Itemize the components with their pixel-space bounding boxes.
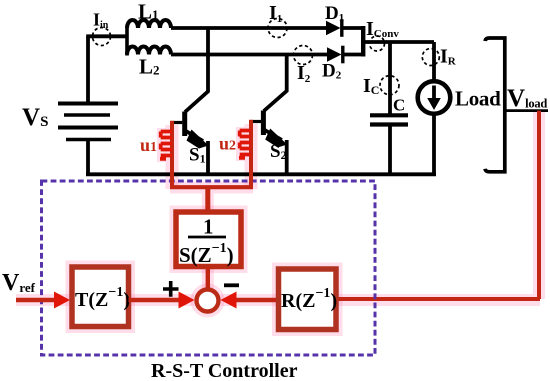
- summing junction: [197, 290, 219, 312]
- block R(Z^-1): [279, 269, 337, 330]
- current probe I2: [294, 46, 313, 65]
- wire: converter output horizontal: [363, 40, 434, 44]
- wire: D2 out: [343, 53, 365, 57]
- label plus: [163, 281, 179, 297]
- transistor S2 base bar: [261, 111, 266, 136]
- battery source VS: [58, 104, 118, 140]
- inductor L1: [127, 20, 171, 28]
- soft halos: [16, 111, 540, 330]
- transistor S1 base stub: [173, 121, 182, 124]
- diode D1: [326, 21, 341, 35]
- wire: load bottom vertical: [432, 113, 436, 176]
- wire: capacitor bottom vertical: [388, 125, 392, 177]
- wire: battery top vertical: [86, 36, 90, 104]
- wire: capacitor top vertical: [388, 42, 392, 114]
- transistor S2 base stub: [252, 120, 261, 123]
- capacitor C plates: [370, 113, 408, 117]
- current probe IConv: [370, 36, 385, 51]
- red gate wire u2 vertical: [249, 120, 253, 189]
- wire: L1/L2 split vertical: [125, 27, 129, 56]
- gate pulse symbol u2: [239, 131, 251, 158]
- red wire: T box to summing circle: [129, 298, 181, 302]
- block 1/S(Z^-1): [176, 212, 241, 267]
- red gate bus horizontal: [170, 185, 253, 189]
- wire: battery bottom vertical: [86, 140, 90, 177]
- transistor S1 emitter with arrow: [185, 131, 203, 142]
- Vload underline: [505, 109, 548, 112]
- transistor S1 collector wire: [185, 28, 208, 112]
- transistor S2 emitter with arrow: [264, 130, 282, 141]
- red gate wire u1 vertical: [170, 121, 174, 189]
- current probe IR: [422, 49, 439, 66]
- load arrow: [432, 86, 436, 100]
- block T(Z^-1): [72, 267, 129, 327]
- wire: bottom rail: [86, 172, 436, 176]
- bracket: [485, 38, 505, 172]
- red feedback wire from Vload: [537, 111, 541, 299]
- wire: D1 out: [343, 26, 365, 30]
- current probe Iin: [93, 28, 111, 46]
- red wire: 1/S box to summing circle: [206, 267, 210, 291]
- load current source circle: [418, 81, 451, 114]
- wire: L2 to D2: [171, 53, 328, 57]
- svg-text:1: 1: [203, 215, 214, 239]
- red wire: bus down to 1/S box: [205, 188, 210, 211]
- wire: diode join vertical: [361, 26, 365, 57]
- wire: S1 emitter down: [206, 141, 210, 176]
- current probe I1: [268, 19, 287, 38]
- transistor S2 collector wire: [264, 55, 287, 112]
- wire: load top vertical: [432, 42, 436, 81]
- inductor L2: [127, 47, 171, 55]
- transistor S1 base bar: [182, 112, 187, 137]
- diode D2: [327, 47, 342, 61]
- current probe IC: [380, 76, 399, 95]
- wire: L1 to D1: [171, 26, 327, 30]
- wire: input top horizontal: [86, 34, 128, 38]
- wire: S2 emitter down: [285, 140, 289, 176]
- dashed controller box: [42, 181, 376, 355]
- red input arrow Vref: [16, 298, 56, 302]
- red wire: feedback horizontal to R box: [336, 297, 540, 301]
- gate pulse symbol u1: [160, 132, 172, 159]
- svg-text:C: C: [393, 96, 405, 115]
- svg-text:Load: Load: [455, 87, 501, 111]
- red wire: R box to summing circle: [236, 298, 278, 302]
- label minus: [224, 283, 239, 287]
- svg-text:R-S-T Controller: R-S-T Controller: [151, 360, 298, 381]
